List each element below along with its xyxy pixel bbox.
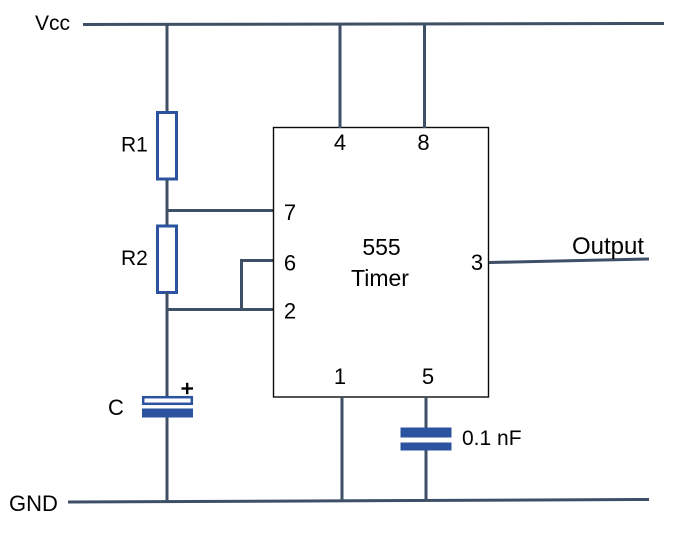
svg-text:7: 7 [284,200,296,225]
svg-text:5: 5 [422,364,434,389]
wire GND rail (bottom) [68,500,649,503]
wire R2 bottom to capacitor C [166,293,169,397]
wire pin 3 to output [489,259,649,263]
svg-text:555: 555 [362,234,400,260]
svg-text:3: 3 [471,250,483,275]
wire node to pin 2 [166,308,274,311]
svg-text:R1: R1 [121,134,148,157]
wire Vcc rail to pin 4 [339,24,342,128]
wire capacitor C to GND rail [166,418,169,503]
wire pin 6 jumper [242,261,274,310]
wire Vcc rail to R1 top [166,24,169,113]
svg-text:6: 6 [284,251,296,276]
capacitor C bottom plate [142,409,193,418]
wire R1 bottom to R2 top [166,180,169,226]
svg-text:0.1 nF: 0.1 nF [462,427,522,450]
wire pin 1 to GND rail [341,397,344,502]
svg-text:Vcc: Vcc [35,12,70,35]
svg-text:1: 1 [334,364,346,389]
svg-text:C: C [108,395,124,420]
wire capacitor C2 to GND rail [425,451,428,502]
op-amp U1 555 timer body [274,128,489,398]
wire node to pin 7 [166,209,274,212]
wire Vcc rail (top) [83,24,664,25]
wire pin 5 to capacitor [425,397,428,428]
svg-text:Output: Output [572,233,644,260]
capacitor C2 bottom plate [401,443,452,451]
wire Vcc rail to pin 8 [423,24,426,128]
svg-text:8: 8 [417,130,429,155]
svg-text:4: 4 [334,130,346,155]
svg-text:GND: GND [9,491,58,516]
resistor R1 [158,113,177,180]
capacitor C top plate [143,397,192,404]
resistor R2 [158,226,177,293]
svg-text:2: 2 [284,299,296,324]
capacitor C2 top plate [401,428,452,438]
svg-text:R2: R2 [121,247,148,270]
capacitor C plus sign [182,383,194,394]
svg-text:Timer: Timer [351,265,409,291]
